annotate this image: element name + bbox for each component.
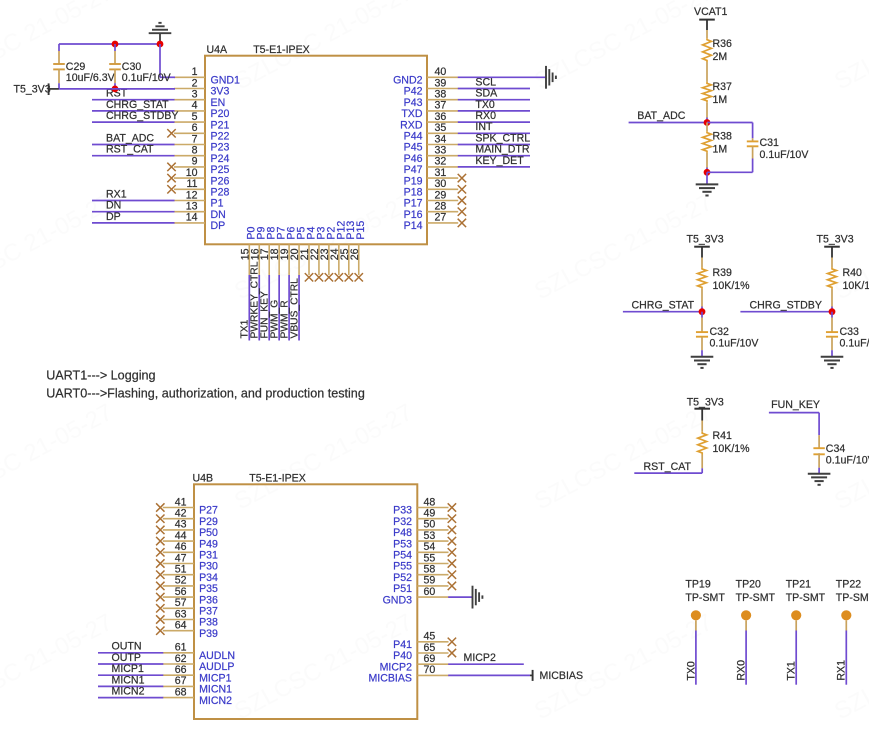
svg-text:MICP1: MICP1 xyxy=(199,672,231,684)
svg-text:1M: 1M xyxy=(713,94,728,106)
svg-text:P38: P38 xyxy=(199,617,218,629)
svg-text:6: 6 xyxy=(192,122,198,134)
svg-text:AUDLP: AUDLP xyxy=(199,661,234,673)
svg-text:MICP2: MICP2 xyxy=(380,661,412,673)
svg-text:30: 30 xyxy=(435,178,447,190)
svg-text:P29: P29 xyxy=(199,516,218,528)
svg-text:11: 11 xyxy=(187,178,198,190)
svg-text:GND3: GND3 xyxy=(383,594,413,606)
svg-text:56: 56 xyxy=(175,586,187,598)
svg-text:10uF/6.3V: 10uF/6.3V xyxy=(66,72,116,84)
svg-text:44: 44 xyxy=(175,530,187,542)
svg-text:TX0: TX0 xyxy=(685,661,697,681)
svg-text:0.1uF/10V: 0.1uF/10V xyxy=(710,337,760,349)
svg-text:P25: P25 xyxy=(211,164,230,176)
svg-text:P43: P43 xyxy=(404,97,423,109)
svg-text:T5_3V3: T5_3V3 xyxy=(817,234,854,246)
svg-text:41: 41 xyxy=(175,496,187,508)
svg-text:SZLCSC 21-05-27: SZLCSC 21-05-27 xyxy=(530,399,717,516)
svg-text:P20: P20 xyxy=(211,108,230,120)
svg-text:10K/1%: 10K/1% xyxy=(713,280,751,292)
svg-text:51: 51 xyxy=(175,564,187,576)
svg-text:28: 28 xyxy=(435,201,447,213)
svg-text:P28: P28 xyxy=(211,187,230,199)
svg-text:29: 29 xyxy=(435,189,447,201)
svg-text:RST_CAT: RST_CAT xyxy=(644,461,692,473)
svg-text:0.1uF/10V: 0.1uF/10V xyxy=(760,149,810,161)
svg-text:RX0: RX0 xyxy=(475,110,496,122)
svg-text:INT: INT xyxy=(475,121,493,133)
svg-text:38: 38 xyxy=(435,89,447,101)
svg-text:SZLCSC 21-05-27: SZLCSC 21-05-27 xyxy=(0,189,117,306)
svg-text:RX1: RX1 xyxy=(836,660,848,681)
svg-text:MICN1: MICN1 xyxy=(199,684,232,696)
svg-text:RST_CAT: RST_CAT xyxy=(106,144,154,156)
svg-text:P36: P36 xyxy=(199,594,218,606)
svg-text:68: 68 xyxy=(175,686,187,698)
svg-text:42: 42 xyxy=(175,508,187,520)
svg-text:T5_3V3: T5_3V3 xyxy=(687,234,724,246)
svg-text:P52: P52 xyxy=(393,572,412,584)
svg-text:7: 7 xyxy=(192,133,198,145)
svg-text:MICN1: MICN1 xyxy=(112,674,145,686)
svg-text:CHRG_STAT: CHRG_STAT xyxy=(632,299,695,311)
svg-text:UART0--->Flashing, authorizati: UART0--->Flashing, authorization, and pr… xyxy=(46,387,365,401)
svg-text:TP-SMT: TP-SMT xyxy=(786,592,826,604)
svg-text:P41: P41 xyxy=(393,639,412,651)
svg-text:34: 34 xyxy=(435,133,447,145)
svg-text:65: 65 xyxy=(424,642,436,654)
svg-text:2M: 2M xyxy=(713,51,728,63)
svg-text:SZLCSC 21-05-27: SZLCSC 21-05-27 xyxy=(530,189,717,306)
svg-text:26: 26 xyxy=(349,248,361,260)
svg-text:MICBIAS: MICBIAS xyxy=(368,673,412,685)
svg-text:P45: P45 xyxy=(404,142,423,154)
svg-text:R41: R41 xyxy=(713,430,733,442)
svg-text:P27: P27 xyxy=(199,505,218,517)
svg-text:MICBIAS: MICBIAS xyxy=(540,670,584,682)
svg-text:R39: R39 xyxy=(713,267,733,279)
svg-text:SDA: SDA xyxy=(475,88,498,100)
svg-text:P51: P51 xyxy=(393,583,412,595)
svg-text:P21: P21 xyxy=(211,119,230,131)
svg-text:35: 35 xyxy=(435,122,447,134)
svg-text:48: 48 xyxy=(424,496,436,508)
svg-text:P48: P48 xyxy=(393,527,412,539)
svg-text:TP-SMT: TP-SMT xyxy=(685,592,725,604)
svg-text:69: 69 xyxy=(424,653,436,665)
svg-text:0.1uF/10V: 0.1uF/10V xyxy=(826,454,869,466)
svg-text:P31: P31 xyxy=(199,550,218,562)
svg-text:VBUS_CTRL: VBUS_CTRL xyxy=(289,278,300,339)
svg-text:8: 8 xyxy=(192,145,198,157)
svg-text:P55: P55 xyxy=(393,561,412,573)
svg-text:TP21: TP21 xyxy=(786,578,811,590)
svg-text:46: 46 xyxy=(175,541,187,553)
svg-text:1M: 1M xyxy=(713,144,728,156)
svg-text:9: 9 xyxy=(192,156,198,168)
svg-text:SZLCSC 21-05-27: SZLCSC 21-05-27 xyxy=(0,609,117,726)
svg-text:KEY_DET: KEY_DET xyxy=(475,155,524,167)
svg-text:P24: P24 xyxy=(211,153,230,165)
svg-text:40: 40 xyxy=(435,66,447,78)
svg-text:P53: P53 xyxy=(393,538,412,550)
svg-text:RX0: RX0 xyxy=(736,660,748,681)
svg-text:OUTP: OUTP xyxy=(112,652,141,664)
svg-text:2: 2 xyxy=(192,77,198,89)
svg-text:P30: P30 xyxy=(199,561,218,573)
svg-text:67: 67 xyxy=(175,675,187,687)
svg-text:P40: P40 xyxy=(393,650,412,662)
svg-text:MICP1: MICP1 xyxy=(112,663,144,675)
svg-text:MAIN_DTR: MAIN_DTR xyxy=(475,144,529,156)
svg-text:P22: P22 xyxy=(211,131,230,143)
svg-text:P14: P14 xyxy=(404,220,423,232)
svg-text:SZLCSC 21-05-27: SZLCSC 21-05-27 xyxy=(830,0,869,95)
svg-text:P26: P26 xyxy=(211,175,230,187)
svg-text:TX0: TX0 xyxy=(475,99,495,111)
svg-text:SZLCSC 21-05-27: SZLCSC 21-05-27 xyxy=(230,399,417,516)
svg-text:CHRG_STAT: CHRG_STAT xyxy=(106,99,169,111)
svg-text:CHRG_STDBY: CHRG_STDBY xyxy=(750,299,822,311)
svg-text:0.1uF/10V: 0.1uF/10V xyxy=(840,337,869,349)
svg-text:P15: P15 xyxy=(355,221,367,240)
svg-text:RX1: RX1 xyxy=(106,188,127,200)
svg-text:66: 66 xyxy=(175,664,187,676)
svg-text:60: 60 xyxy=(424,586,436,598)
svg-text:TXD: TXD xyxy=(401,108,423,120)
svg-text:P17: P17 xyxy=(404,198,423,210)
svg-text:CHRG_STDBY: CHRG_STDBY xyxy=(106,110,178,122)
svg-text:47: 47 xyxy=(175,552,187,564)
svg-text:TP20: TP20 xyxy=(736,578,761,590)
svg-text:OUTN: OUTN xyxy=(112,641,142,653)
svg-text:52: 52 xyxy=(175,575,187,587)
svg-text:64: 64 xyxy=(175,620,187,632)
svg-text:P46: P46 xyxy=(404,153,423,165)
svg-text:C34: C34 xyxy=(826,443,846,455)
svg-text:62: 62 xyxy=(175,653,187,665)
svg-text:P47: P47 xyxy=(404,164,423,176)
svg-text:SZLCSC 21-05-27: SZLCSC 21-05-27 xyxy=(0,399,117,516)
svg-text:DP: DP xyxy=(211,220,226,232)
svg-text:P42: P42 xyxy=(404,86,423,98)
svg-text:37: 37 xyxy=(435,100,447,112)
svg-text:T5-E1-IPEX: T5-E1-IPEX xyxy=(253,44,310,56)
svg-text:P37: P37 xyxy=(199,606,218,618)
svg-text:MICP2: MICP2 xyxy=(464,652,496,664)
svg-text:57: 57 xyxy=(175,597,187,609)
svg-text:P23: P23 xyxy=(211,142,230,154)
svg-text:58: 58 xyxy=(424,564,436,576)
svg-text:TP22: TP22 xyxy=(836,578,861,590)
svg-text:SPK_CTRL: SPK_CTRL xyxy=(475,132,530,144)
svg-text:R40: R40 xyxy=(843,267,863,279)
svg-text:T5_3V3: T5_3V3 xyxy=(14,84,51,96)
svg-text:UART1---> Logging: UART1---> Logging xyxy=(46,368,155,382)
svg-text:36: 36 xyxy=(435,111,447,123)
svg-text:AUDLN: AUDLN xyxy=(199,650,235,662)
svg-text:P50: P50 xyxy=(199,527,218,539)
svg-text:U4A: U4A xyxy=(207,44,229,56)
svg-text:12: 12 xyxy=(186,189,198,201)
svg-text:P1: P1 xyxy=(211,198,224,210)
svg-text:P39: P39 xyxy=(199,628,218,640)
svg-text:MICN2: MICN2 xyxy=(112,686,145,698)
svg-text:C31: C31 xyxy=(760,137,780,149)
svg-text:54: 54 xyxy=(424,541,436,553)
svg-text:49: 49 xyxy=(424,508,436,520)
svg-text:70: 70 xyxy=(424,664,436,676)
svg-text:10: 10 xyxy=(186,167,198,179)
svg-text:R36: R36 xyxy=(713,38,733,50)
svg-text:45: 45 xyxy=(424,631,436,643)
svg-text:14: 14 xyxy=(186,212,198,224)
svg-text:VCAT1: VCAT1 xyxy=(694,6,727,18)
svg-text:TP-SMT: TP-SMT xyxy=(736,592,776,604)
svg-text:GND1: GND1 xyxy=(211,75,241,87)
svg-text:P54: P54 xyxy=(393,550,412,562)
svg-text:EN: EN xyxy=(211,97,226,109)
svg-text:0.1uF/10V: 0.1uF/10V xyxy=(122,72,172,84)
svg-text:50: 50 xyxy=(424,519,436,531)
svg-text:4: 4 xyxy=(192,100,198,112)
svg-text:P44: P44 xyxy=(404,131,423,143)
svg-text:DN: DN xyxy=(211,209,226,221)
svg-text:13: 13 xyxy=(186,201,198,213)
svg-text:DN: DN xyxy=(106,200,121,212)
svg-text:59: 59 xyxy=(424,575,436,587)
svg-text:SZLCSC 21-05-27: SZLCSC 21-05-27 xyxy=(530,0,717,95)
svg-text:P33: P33 xyxy=(393,505,412,517)
svg-text:BAT_ADC: BAT_ADC xyxy=(106,132,154,144)
svg-text:5: 5 xyxy=(192,111,198,123)
svg-text:TP19: TP19 xyxy=(685,578,710,590)
svg-text:43: 43 xyxy=(175,519,187,531)
svg-text:10K/1%: 10K/1% xyxy=(843,280,869,292)
svg-text:P18: P18 xyxy=(404,187,423,199)
svg-text:3: 3 xyxy=(192,89,198,101)
svg-text:63: 63 xyxy=(175,608,187,620)
svg-text:P32: P32 xyxy=(393,516,412,528)
svg-text:53: 53 xyxy=(424,530,436,542)
svg-text:R38: R38 xyxy=(713,131,733,143)
svg-text:FUN_KEY: FUN_KEY xyxy=(771,399,820,411)
svg-text:61: 61 xyxy=(175,642,187,654)
svg-text:55: 55 xyxy=(424,552,436,564)
svg-text:GND2: GND2 xyxy=(393,75,423,87)
svg-text:T5-E1-IPEX: T5-E1-IPEX xyxy=(249,472,306,484)
svg-text:MICN2: MICN2 xyxy=(199,695,232,707)
svg-text:RXD: RXD xyxy=(400,119,423,131)
svg-text:10K/1%: 10K/1% xyxy=(713,443,751,455)
svg-text:P16: P16 xyxy=(404,209,423,221)
svg-text:P34: P34 xyxy=(199,572,218,584)
svg-text:TP-SMT: TP-SMT xyxy=(836,592,869,604)
svg-text:SCL: SCL xyxy=(475,76,496,88)
svg-text:DP: DP xyxy=(106,211,121,223)
svg-text:33: 33 xyxy=(435,145,447,157)
svg-text:TX1: TX1 xyxy=(786,661,798,681)
svg-text:P49: P49 xyxy=(199,538,218,550)
svg-text:31: 31 xyxy=(435,167,447,179)
svg-text:U4B: U4B xyxy=(193,472,214,484)
svg-text:C32: C32 xyxy=(710,326,730,338)
svg-text:T5_3V3: T5_3V3 xyxy=(687,396,724,408)
svg-text:BAT_ADC: BAT_ADC xyxy=(637,110,685,122)
svg-text:27: 27 xyxy=(435,212,447,224)
svg-text:C33: C33 xyxy=(840,326,860,338)
svg-text:1: 1 xyxy=(192,66,198,78)
svg-text:P35: P35 xyxy=(199,583,218,595)
svg-text:3V3: 3V3 xyxy=(211,86,230,98)
svg-text:R37: R37 xyxy=(713,81,733,93)
svg-text:32: 32 xyxy=(435,156,447,168)
svg-text:39: 39 xyxy=(435,77,447,89)
svg-text:P19: P19 xyxy=(404,175,423,187)
